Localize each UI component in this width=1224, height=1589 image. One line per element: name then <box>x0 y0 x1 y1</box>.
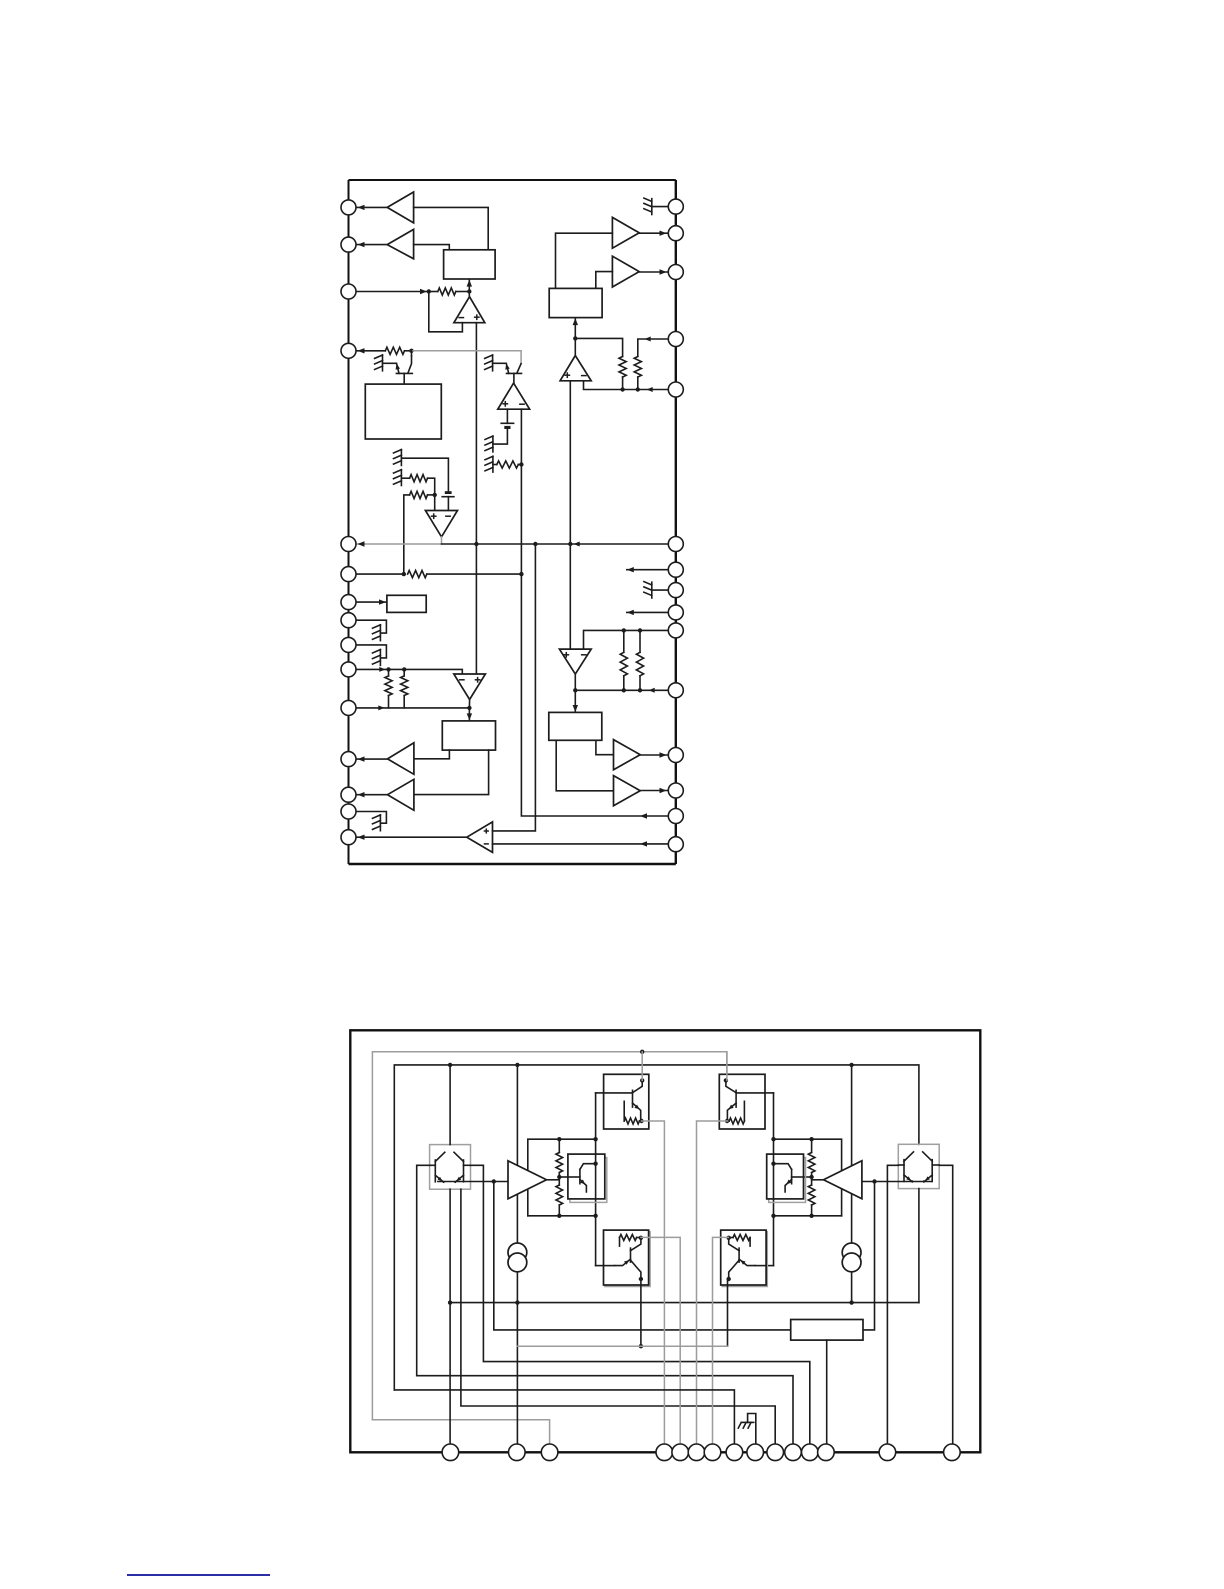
IC1 outline top border <box>349 179 676 181</box>
junction dot pin6 rail <box>519 572 523 576</box>
pin L14 <box>341 804 356 819</box>
arrow into pin 13 <box>358 792 365 797</box>
amp A5 <box>467 822 493 853</box>
inner box IB2 gray shadow <box>769 1158 806 1203</box>
wire buffer A1 output to pin 1 <box>356 206 387 208</box>
pin B3 <box>541 1444 558 1461</box>
wire Q20 bottom to bus corner <box>918 1189 920 1303</box>
gray top bus <box>372 1052 727 1420</box>
wire U6 minus to pin R10 rail <box>584 630 669 649</box>
wire A10 tip stub <box>547 1179 560 1181</box>
pin L8 <box>341 613 356 628</box>
resistor R6 <box>408 571 427 578</box>
top-right box TB2 <box>719 1074 765 1129</box>
resistor R8 <box>401 676 408 696</box>
block B4 <box>442 721 495 750</box>
pin B5 <box>672 1444 689 1461</box>
IC1 outline bottom border <box>349 863 676 865</box>
ground G2 <box>492 355 494 371</box>
resistor R1 <box>438 288 456 295</box>
transistor block Q10 box <box>430 1145 471 1190</box>
wire R7 top <box>388 669 390 676</box>
BB2 transistors and resistor R27 <box>733 1235 750 1241</box>
right cell bottom line <box>774 1215 842 1217</box>
arrow into block B4 <box>467 713 472 720</box>
transistor Q1 base bar <box>396 372 412 374</box>
IC1 outline left border <box>348 180 350 864</box>
wire U2 minus long vertical to pin R14 rail <box>521 409 668 816</box>
right cell top line <box>774 1139 842 1216</box>
wire node N1 to resistor R1 <box>429 291 438 293</box>
arrow on pin R11 rail <box>649 688 655 693</box>
TB1 transistors and resistor R24 <box>640 1078 644 1082</box>
op-amp U1 <box>454 297 485 323</box>
wire R9 bottom <box>622 377 624 390</box>
wire U2 plus to battery <box>506 409 508 423</box>
pin R15 <box>668 837 683 852</box>
pin R2 <box>668 226 683 241</box>
junction dot I2 bus <box>849 1300 853 1304</box>
node N7 <box>573 336 577 340</box>
resistor R12 <box>636 652 643 676</box>
ground G9 <box>379 815 381 831</box>
junction dot R10 bottom <box>636 387 640 391</box>
wire pin R9s stub <box>627 611 668 613</box>
node N8 <box>573 688 577 692</box>
wire ground G11 to pin R8 <box>652 589 668 591</box>
block B3 <box>387 595 426 612</box>
junction dot cell-R bottom left <box>771 1214 775 1218</box>
wire Q10 second bottom exit to bus y1406 <box>461 1189 775 1452</box>
wire R20 top <box>558 1139 560 1152</box>
transistor Q2 base bar <box>507 372 522 374</box>
wire Q20 emitters to amp A11 <box>862 1181 931 1183</box>
transistor Q2 emitter <box>507 364 509 373</box>
pin B13 <box>818 1444 835 1461</box>
wire pin R7 stub <box>627 569 668 571</box>
arrow into pin R2 <box>660 231 667 236</box>
U5 minus label <box>581 375 587 377</box>
left cell top line <box>528 1139 596 1216</box>
wire A4 output to pin 13 <box>356 794 388 796</box>
ground G10 <box>651 199 653 215</box>
wire R3 to vertical <box>518 464 521 466</box>
wire U1 feedback to node N1 <box>429 292 463 332</box>
arrow on pin R7 stub <box>627 567 634 572</box>
battery BT1 plate thin <box>501 422 513 424</box>
pin L4 <box>341 343 356 358</box>
pin B7 <box>704 1444 721 1461</box>
node N1 <box>427 289 431 293</box>
wire N11 down to block B7 <box>863 1182 875 1330</box>
amp A8 <box>614 740 641 770</box>
block B6 <box>549 712 602 740</box>
junction dot cell-L top right <box>593 1137 597 1141</box>
wire node N6 into block B4 <box>468 708 470 721</box>
wire node N2 up into block B1 <box>468 280 470 292</box>
junction dot Q10 bus <box>448 1300 452 1304</box>
junction dot R12 bottom <box>638 688 642 692</box>
top-left box TB1 <box>604 1074 649 1129</box>
U1 plus label <box>474 316 480 318</box>
wire amp A5 output to pin 15 <box>356 836 467 838</box>
wire A5 plus input <box>493 544 536 831</box>
resistor R3 <box>497 461 519 468</box>
A5 plus label <box>484 830 489 832</box>
transistor pair Q10 <box>434 1160 436 1182</box>
junction dot R8 top <box>402 667 406 671</box>
wire A2 input from block B1 <box>414 245 450 250</box>
ground G7 <box>379 625 381 641</box>
arrow on pin 3 wire <box>420 289 427 294</box>
wire A3 output to pin 12 <box>356 758 388 760</box>
wire ground G1 to Q1 emitter <box>383 362 397 364</box>
gray wire R25 to pin <box>697 1121 728 1452</box>
wire Q10 bottom to bus and pin <box>449 1189 451 1452</box>
wire R12 top <box>639 630 641 652</box>
pin L9 <box>341 637 356 652</box>
pin B4 <box>656 1444 673 1461</box>
wire R8 top <box>403 669 405 676</box>
pin L13 <box>341 787 356 802</box>
ground G8 <box>379 650 381 666</box>
wire node N7 to op-amp U5 <box>574 338 576 355</box>
pin L1 <box>341 200 356 215</box>
arrow on pin R14 wire <box>640 813 647 818</box>
buffer amp A4 <box>388 779 414 810</box>
pin L12 <box>341 752 356 767</box>
wire BB2 resistor to pin 712 <box>713 1237 729 1452</box>
pin R1 <box>668 199 683 214</box>
arrow into pin 4 <box>358 348 365 353</box>
wire node N4 to U3 plus <box>434 495 436 511</box>
bus y1390 wire <box>394 1390 734 1452</box>
junction dot cell-L bottom res <box>557 1214 561 1218</box>
left cell bottom line <box>528 1215 596 1217</box>
arrow on pin 10 wire <box>379 667 385 672</box>
arrow into pin 15 <box>358 835 365 840</box>
buffer amp A3 <box>388 743 414 775</box>
earth ground GE1 <box>748 1414 756 1453</box>
wire B7 bottom to pin <box>826 1340 828 1452</box>
pin B10 <box>767 1444 784 1461</box>
pin R6 <box>668 537 683 552</box>
pin B1 <box>442 1444 459 1461</box>
resistor R4 <box>410 475 428 482</box>
gray wire TB2 vert <box>726 1052 728 1081</box>
buffer amp A2 <box>387 229 413 258</box>
pin R7 <box>668 562 683 577</box>
junction dot cell-R bottom res <box>809 1214 813 1218</box>
wire BB1 emitter down <box>640 1279 642 1346</box>
junction dot rail x570 <box>568 542 572 546</box>
wire C1 to U3 minus <box>447 497 449 511</box>
wire block B6 to amp A9 <box>556 740 613 791</box>
pin B11 <box>785 1444 802 1461</box>
wire U5 minus to pin R5 <box>584 381 669 390</box>
wire pin 9 to ground G8 <box>356 645 386 658</box>
transistor Q1 collector <box>408 356 412 373</box>
wire R22 node to inner box <box>804 1176 812 1178</box>
arrow into block B1 <box>467 280 472 287</box>
node N5 <box>402 572 406 576</box>
wire block B6 to amp A8 <box>596 740 614 754</box>
junction dot R12 top <box>638 628 642 632</box>
arrow on pin5 rail <box>574 542 580 547</box>
U2 plus label <box>502 403 508 405</box>
wire A6 input from block B5 <box>556 233 613 288</box>
transistor Q2 collector <box>517 364 521 373</box>
arrow into pin 1 <box>358 205 365 210</box>
wire R5 to node N4 <box>428 494 435 496</box>
bottom-right box BB2 <box>721 1230 766 1285</box>
wire TB2 right exit <box>765 1092 774 1094</box>
through wire right x773 <box>773 1093 775 1266</box>
wire Q10 top supply <box>449 1065 451 1145</box>
buffer amp A1 <box>387 192 413 223</box>
node dot N10 <box>492 1179 496 1183</box>
wire current source I2 bottom <box>851 1272 853 1303</box>
wire R21 bottom <box>558 1205 560 1216</box>
wire pin 3 input <box>356 291 429 293</box>
pin L7 <box>341 595 356 610</box>
arrow into block B6 <box>573 705 578 712</box>
node N2 <box>467 289 471 293</box>
junction dot R11 top <box>622 628 626 632</box>
arrow on pin 11 wire <box>378 705 384 710</box>
junction dot bus x449 <box>448 1063 452 1067</box>
pin L10 <box>341 662 356 677</box>
op-amp U6 <box>559 649 591 674</box>
wire A1 input from block B1 <box>414 207 489 249</box>
wire Q10 left base to bus y1376 <box>417 1165 793 1452</box>
wire A5 minus input to pin R15 <box>493 843 669 845</box>
wire current source I2 top <box>851 1065 853 1243</box>
node N6 <box>467 706 471 710</box>
wire R4 to node N4 <box>428 478 435 495</box>
U6 plus label <box>563 654 569 656</box>
junction dot R11 bottom <box>622 688 626 692</box>
resistor R7 <box>385 676 392 696</box>
node dot R22-R23 <box>809 1175 813 1179</box>
ground G3 <box>492 436 494 452</box>
BB1 transistors and resistor R26 <box>620 1235 637 1241</box>
wire R8 bottom <box>403 696 405 708</box>
wire R6 to long vertical <box>427 573 522 575</box>
wire pin 4 to resistor R2 <box>356 350 385 352</box>
wire U5 plus long vertical <box>569 381 571 649</box>
junction dot cell-R top res <box>809 1137 813 1141</box>
wire R11 bottom <box>623 676 625 691</box>
arrow into pin R13 <box>660 788 667 793</box>
wire BB2 emitter down to cross wire <box>727 1279 729 1346</box>
IC2 outline <box>350 1030 980 1452</box>
wire node N7 to resistor R9 <box>575 338 622 356</box>
wire ground G10 to pin R1 <box>652 206 668 208</box>
wire current source I1 top <box>516 1065 518 1243</box>
gray wire TB1 vert <box>641 1052 643 1081</box>
arrow into pin 2 <box>358 242 365 247</box>
pin L6 <box>341 567 356 582</box>
bottom-right box BB2 gray shadow <box>722 1232 767 1287</box>
wire ground G2 to Q2 emitter <box>493 362 507 364</box>
U4 plus label <box>475 679 481 681</box>
through wire left x595 <box>595 1093 597 1266</box>
pin B2 <box>509 1444 526 1461</box>
ground G5 <box>400 450 402 466</box>
wire pin 11 rail <box>356 707 469 709</box>
ground G6 <box>400 470 402 486</box>
pin R5 <box>668 382 683 397</box>
wire ground G5 to capacitor C1 <box>401 458 448 491</box>
wire Q10 right base to bus y1362 <box>471 1165 810 1452</box>
wire A9 output to pin R13 <box>640 790 668 792</box>
pin R13 <box>668 783 683 798</box>
node dot N11 <box>872 1179 876 1183</box>
gray wire node N3 to transistor Q2 collector <box>412 351 522 364</box>
junction dot R3 node <box>519 462 523 466</box>
U1 minus label <box>458 317 464 319</box>
wire Q1 base to block B2 <box>403 373 405 384</box>
resistor R5 <box>410 491 428 498</box>
wire block B4 to buffer A4 <box>414 750 489 795</box>
junction dot rail x535 <box>533 542 537 546</box>
wire ground G6 to resistor R4 <box>401 477 409 479</box>
wire R12 bottom <box>639 676 641 691</box>
pin B6 <box>688 1444 705 1461</box>
arrow into pin 12 <box>358 756 365 761</box>
junction dot bus x517 <box>515 1063 519 1067</box>
wire U1 plus input long vertical <box>475 323 477 674</box>
junction dot I1 bus <box>515 1300 519 1304</box>
transistor Q1 emitter <box>397 364 399 373</box>
resistor R11 <box>620 652 627 676</box>
pin R12 <box>668 748 683 763</box>
wire R10 bottom <box>637 377 639 390</box>
pin L5 <box>341 537 356 552</box>
wire ground G4 to resistor R3 <box>493 464 497 466</box>
wire Q1 collector to node N3 <box>411 351 413 356</box>
arrow on pin R4 wire <box>645 337 651 342</box>
wire A6 output to pin R2 <box>639 232 668 234</box>
U4 minus label <box>459 679 465 681</box>
pin R9 <box>668 605 683 620</box>
pin B12 <box>802 1444 819 1461</box>
inner box IB1 <box>568 1154 605 1199</box>
wire R20 node to inner box <box>559 1176 568 1178</box>
junction dot bus x851 <box>849 1063 853 1067</box>
ground G4 <box>492 456 494 472</box>
current source I2 <box>842 1243 861 1262</box>
amp A11 <box>824 1161 862 1199</box>
wire R23 bottom <box>811 1205 813 1216</box>
pin L3 <box>341 284 356 299</box>
bottom-left box BB1 <box>604 1230 649 1285</box>
wire U4 output <box>468 700 470 708</box>
wire R7 bottom <box>388 696 390 708</box>
pin B15 <box>944 1444 961 1461</box>
U3 plus label <box>431 515 437 517</box>
amp A10 <box>508 1161 547 1199</box>
junction dot on pin5 rail <box>474 542 478 546</box>
arrow into block B5 <box>573 318 578 325</box>
battery BT1 plate thick <box>504 426 510 429</box>
wire A7 output to pin R3 <box>639 271 668 273</box>
op-amp U2 <box>498 383 530 409</box>
block B2 <box>365 384 441 439</box>
wire Q10 emitters to amp A10 <box>438 1181 508 1183</box>
amp A6 <box>612 217 639 248</box>
pin R8 <box>668 583 683 598</box>
arrow into block B3 <box>379 599 386 604</box>
bottom-left box BB1 gray shadow <box>605 1232 650 1287</box>
arrow on Q2 emitter <box>505 364 509 370</box>
gray wire U3 output to pin 5 <box>356 537 442 544</box>
block B1 <box>444 250 496 279</box>
arrow on Q1 emitter <box>396 364 400 370</box>
inner box IB2 <box>767 1154 804 1199</box>
U6 minus label <box>581 654 587 656</box>
junction dot gray bus x642 <box>640 1050 644 1054</box>
wire R2 to node N3 <box>405 350 412 352</box>
TB2 transistors and resistor R25 <box>724 1078 728 1082</box>
junction dot cell-R top left <box>771 1137 775 1141</box>
arrow into pin R3 <box>660 269 667 274</box>
wire pin 14 to ground G9 <box>356 812 386 824</box>
pin R3 <box>668 265 683 280</box>
wire node N2 to op-amp U1 <box>468 292 470 297</box>
wire N10 down to block B7 <box>494 1182 791 1330</box>
bottom bus <box>450 1302 919 1304</box>
wire R22 top <box>811 1139 813 1152</box>
capacitor C1 plate thin <box>442 496 454 498</box>
A5 minus label <box>484 843 489 845</box>
wire Q20 right base to pin <box>939 1165 953 1452</box>
current source I1 <box>508 1243 527 1262</box>
gray bottom bus to pin B3 <box>372 1420 549 1453</box>
wire into bottom-right box <box>766 1265 773 1267</box>
pin R10 <box>668 623 683 638</box>
pin B14 <box>879 1444 896 1461</box>
pin L15 <box>341 830 356 845</box>
pin L2 <box>341 237 356 252</box>
block B7 <box>791 1320 863 1341</box>
arrow on pin R9 stub <box>627 610 634 615</box>
U3 minus label <box>445 515 451 517</box>
inner box IB2 transistors <box>773 1154 775 1199</box>
wire Q20 left base to pin <box>887 1165 898 1452</box>
resistor R9 <box>619 357 626 378</box>
arrow on pin R5 wire <box>647 387 653 392</box>
wire R1 to node N2 <box>456 291 470 293</box>
node N4 <box>433 493 437 497</box>
junction dot R7 top <box>386 667 390 671</box>
wire node N7 into block B5 <box>574 318 576 338</box>
pin L11 <box>341 700 356 715</box>
wire A8 output to pin R12 <box>640 754 668 756</box>
wire pin 10 to op-amp U4 minus <box>356 669 462 674</box>
footer rule <box>127 1574 270 1576</box>
pin B8 <box>726 1444 743 1461</box>
gray wire R24 to pin <box>642 1121 665 1452</box>
resistor R20 <box>556 1153 563 1173</box>
junction dot cell-L top res <box>557 1137 561 1141</box>
U2 minus label <box>519 403 525 405</box>
block B5 <box>549 288 602 317</box>
wire pin 8 to ground G7 <box>356 620 386 633</box>
ground G1 <box>382 355 384 371</box>
pin R14 <box>668 809 683 824</box>
